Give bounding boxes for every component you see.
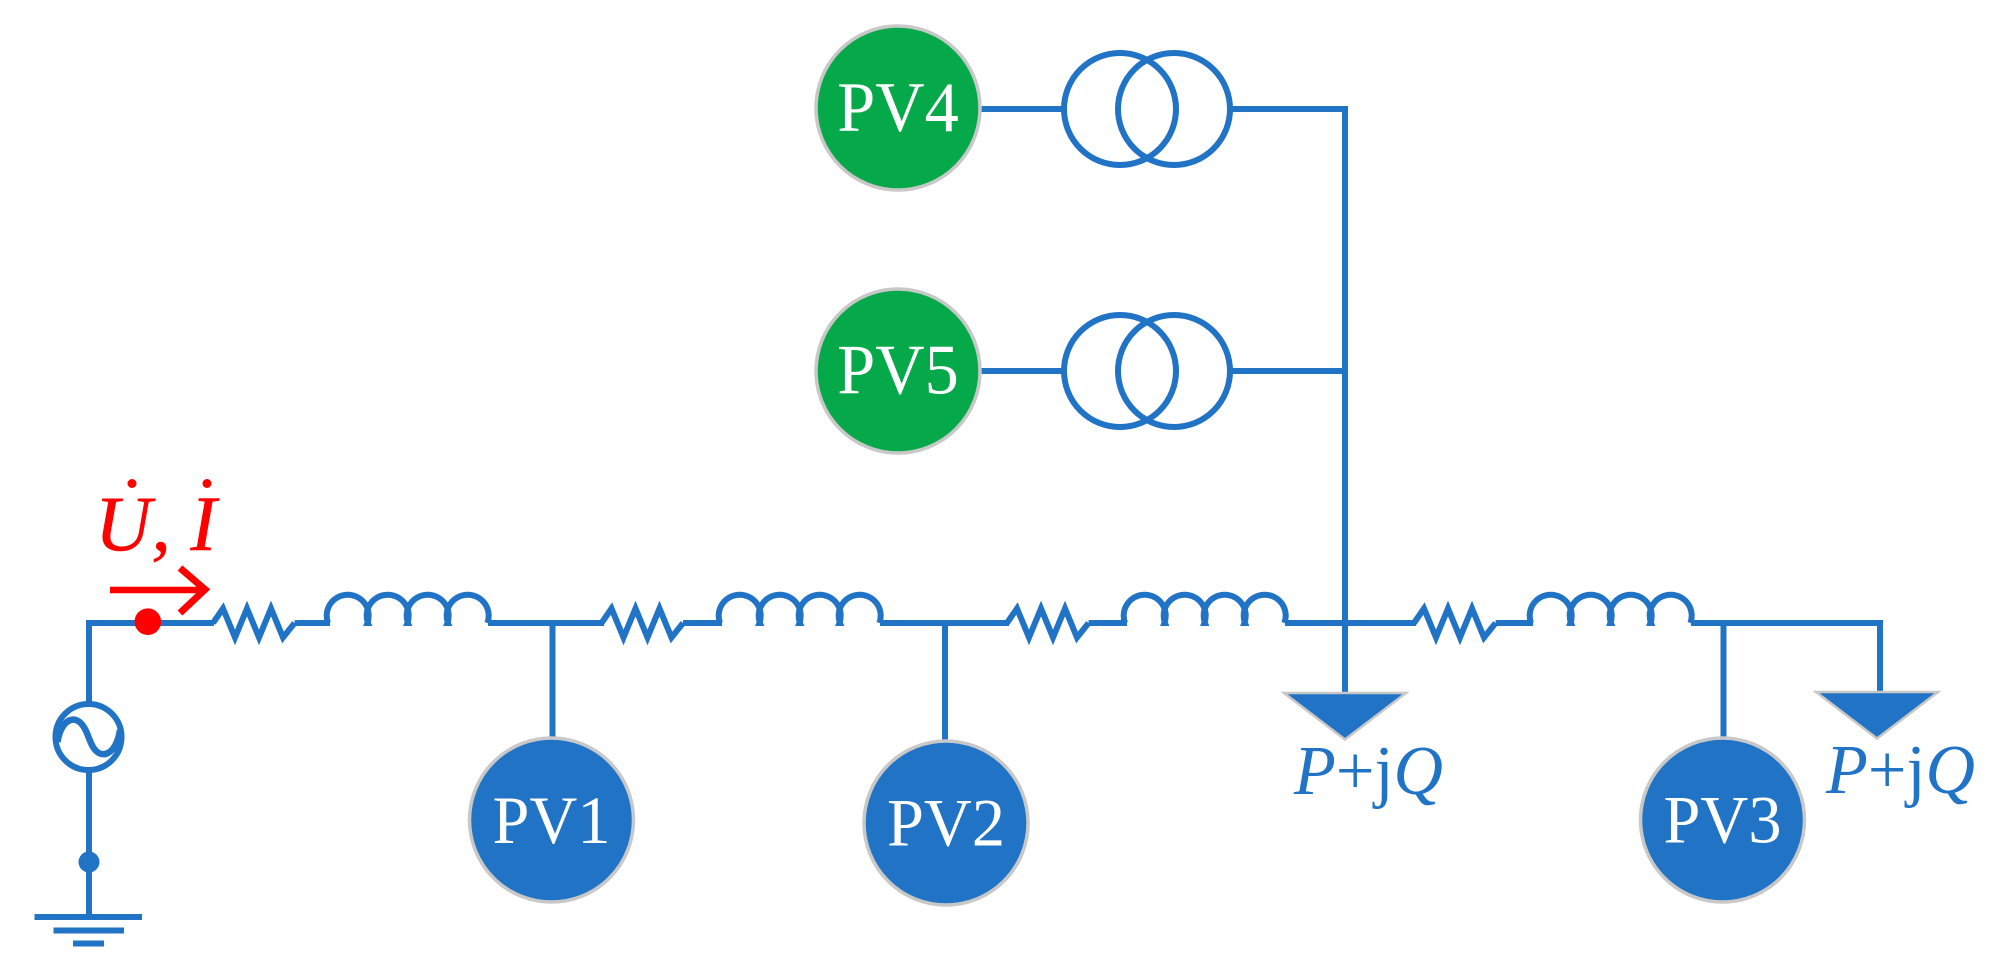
dot over I [203,479,212,488]
AC source sine wave [58,720,121,755]
wire drop to PV2 [942,623,948,745]
generator circle PV4 [816,26,980,190]
wire bus right corner down to load 2 [1877,620,1883,694]
wire drop to PV1 [550,623,556,745]
resistor segment 1 [213,609,295,638]
transformer T2 [1064,315,1230,427]
svg-text:U, I: U, I [95,480,220,567]
dot over U [128,479,137,488]
wire PV5 to transformer T2 [980,368,1066,374]
generator circle PV1 [470,738,634,902]
inductor segment 3 [1124,595,1286,623]
svg-text:PV4: PV4 [837,69,959,147]
generator circle PV2 [864,741,1028,905]
load arrow 2 [1816,692,1938,739]
AC source G [56,704,122,770]
svg-text:P+jQ: P+jQ [1293,733,1443,810]
load arrow 1 [1284,693,1406,740]
wire transformer T2 to node A vertical [1229,368,1345,374]
generator circle PV5 [816,289,980,453]
wire transformer T1 to node A corner, down to bus [1229,109,1345,694]
resistor segment 2 [602,609,684,638]
junction dot above ground [79,852,100,873]
wire drop to PV3 [1721,623,1727,745]
svg-text:P+jQ: P+jQ [1825,732,1975,809]
wire left riser to AC source [86,620,92,706]
inductor segment 4 [1530,595,1692,623]
ground [35,917,143,944]
wire AC source to ground [86,769,92,917]
svg-text:PV3: PV3 [1664,782,1782,858]
inductor segment 2 [719,595,881,623]
transformer T1 [1064,53,1230,165]
svg-text:PV1: PV1 [493,782,611,858]
resistor segment 3 [1007,609,1089,638]
svg-text:PV2: PV2 [887,785,1005,861]
wire PV4 to transformer T1 [980,106,1066,112]
svg-text:PV5: PV5 [837,332,959,410]
inductor segment 1 [327,595,489,623]
measurement arrow (red) [110,587,203,593]
generator circle PV3 [1641,738,1805,902]
measurement node dot (red) [135,608,162,635]
main feeder bus wire segments [89,620,1883,626]
resistor segment 4 [1414,609,1496,638]
